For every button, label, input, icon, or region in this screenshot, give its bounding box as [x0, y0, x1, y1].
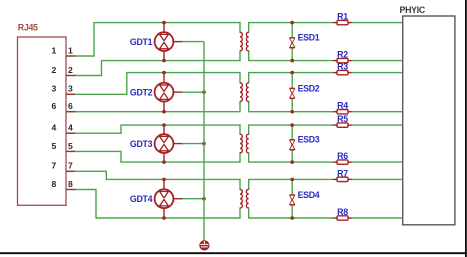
transformer T1 primary winding — [240, 23, 242, 61]
resistor R3 — [333, 70, 352, 74]
GDT1 gas discharge tube — [155, 21, 183, 63]
transformer T2 primary winding — [240, 73, 242, 112]
svg-text:7: 7 — [52, 161, 57, 171]
wire pin2 to pair1- — [75, 75, 101, 77]
svg-text:R8: R8 — [337, 207, 348, 217]
transformer T2 secondary winding — [246, 73, 248, 112]
transformer T1 secondary winding — [246, 23, 248, 61]
transformer T4 secondary winding — [246, 179, 248, 218]
ESD4 TVS diode — [290, 178, 295, 220]
svg-text:1: 1 — [52, 45, 57, 55]
J1 pin 8 stub — [66, 189, 76, 191]
connector J1 RJ45 body — [18, 37, 67, 205]
J1 pin 5 stub — [66, 150, 76, 152]
resistor R5 — [333, 123, 352, 127]
earth ground symbol — [200, 241, 209, 250]
svg-text:R6: R6 — [337, 151, 348, 161]
svg-text:4: 4 — [68, 123, 73, 133]
wire pin7 to pair4+ — [75, 170, 106, 172]
svg-text:1: 1 — [68, 45, 73, 55]
resistor R8 — [333, 216, 352, 220]
wire pair4+ secondary to PHY — [248, 178, 333, 180]
J1 pin 7 stub — [66, 170, 76, 172]
wire pair2- secondary to PHY — [248, 111, 333, 113]
ESD2 TVS diode — [290, 71, 295, 114]
wire GDT3 to ground bus — [182, 143, 204, 145]
J1 pin 2 stub — [66, 75, 76, 77]
svg-text:6: 6 — [68, 101, 73, 111]
ESD3 TVS diode — [290, 123, 295, 164]
svg-text:R4: R4 — [337, 101, 348, 111]
J1 pin 4 stub — [66, 132, 76, 134]
wire pair2+ secondary to PHY — [248, 72, 333, 74]
resistor R7 — [333, 177, 352, 181]
svg-text:ESD3: ESD3 — [298, 135, 320, 145]
svg-text:PHYIC: PHYIC — [400, 5, 426, 15]
wire pin8 to pair4- — [75, 189, 96, 191]
junction GDT2/bus — [202, 90, 206, 94]
svg-text:8: 8 — [68, 179, 73, 189]
svg-text:GDT2: GDT2 — [130, 88, 153, 98]
page border bottom — [0, 252, 467, 254]
svg-text:7: 7 — [68, 161, 73, 171]
wire ground bus — [203, 42, 205, 241]
junction GDT3/bus — [202, 142, 206, 146]
svg-text:GDT4: GDT4 — [130, 194, 153, 204]
GDT2 gas discharge tube — [155, 71, 183, 114]
svg-text:GDT3: GDT3 — [130, 139, 153, 149]
wire pin4 to pair3+ — [75, 132, 121, 134]
svg-text:R2: R2 — [337, 50, 348, 60]
wire pair1- secondary to PHY — [248, 60, 333, 62]
wire pair3- secondary to PHY — [248, 161, 333, 163]
svg-text:6: 6 — [52, 101, 57, 111]
svg-text:R7: R7 — [337, 168, 348, 178]
wire pin1 to pair1+ — [75, 55, 94, 57]
svg-text:ESD1: ESD1 — [298, 33, 320, 43]
resistor R1 — [333, 20, 352, 24]
GDT3 gas discharge tube — [155, 123, 183, 164]
svg-text:GDT1: GDT1 — [130, 37, 153, 47]
transformer T3 secondary winding — [246, 125, 248, 162]
svg-text:R5: R5 — [337, 114, 348, 124]
wire GDT1 to ground bus — [182, 41, 204, 43]
resistor R4 — [333, 110, 352, 114]
svg-text:ESD4: ESD4 — [298, 190, 320, 200]
svg-text:R1: R1 — [337, 12, 348, 22]
wire pair1+ secondary to PHY — [248, 22, 333, 24]
page border right — [465, 0, 467, 257]
wire GDT2 to ground bus — [182, 91, 204, 93]
svg-text:2: 2 — [68, 65, 73, 75]
wire pin6 to pair2- — [75, 111, 241, 113]
wire GDT4 to ground bus — [182, 198, 204, 200]
junction GDT4/bus — [202, 197, 206, 201]
svg-text:ESD2: ESD2 — [298, 83, 320, 93]
svg-text:5: 5 — [68, 141, 73, 151]
transformer T4 primary winding — [240, 179, 242, 218]
resistor R2 — [333, 58, 352, 62]
GDT4 gas discharge tube — [155, 178, 183, 220]
IC U1 PHYIC body — [403, 16, 455, 225]
svg-text:3: 3 — [68, 84, 73, 94]
wire pair3+ secondary to PHY — [248, 124, 333, 126]
transformer T3 primary winding — [240, 125, 242, 162]
svg-text:8: 8 — [52, 179, 57, 189]
wire pin3 to pair2+ — [75, 93, 127, 95]
svg-text:3: 3 — [52, 84, 57, 94]
wire pair4- secondary to PHY — [248, 217, 333, 219]
J1 pin 6 stub — [66, 111, 76, 113]
J1 pin 1 stub — [66, 55, 76, 57]
J1 pin 3 stub — [66, 93, 76, 95]
svg-text:R3: R3 — [337, 62, 348, 72]
resistor R6 — [333, 160, 352, 164]
svg-text:RJ45: RJ45 — [18, 22, 38, 32]
svg-text:4: 4 — [52, 123, 57, 133]
svg-text:5: 5 — [52, 141, 57, 151]
wire pin5 to pair3- — [75, 150, 121, 152]
ESD1 TVS diode — [290, 21, 295, 63]
svg-text:2: 2 — [52, 65, 57, 75]
